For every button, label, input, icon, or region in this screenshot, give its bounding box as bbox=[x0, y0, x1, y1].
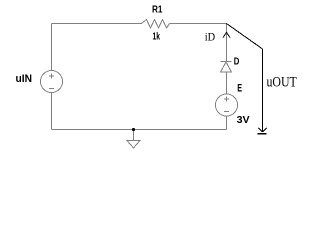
diode D triangle bbox=[221, 62, 232, 72]
junction dot at ground node bbox=[132, 128, 135, 131]
wire left vertical (corner down to uIN top) bbox=[51, 24, 53, 71]
uOUT arrow diagonal bbox=[227, 24, 263, 50]
wire top horizontal right (R1 to node) bbox=[170, 23, 227, 25]
wire top horizontal left (source to R1) bbox=[52, 23, 143, 25]
resistor R1 zigzag bbox=[142, 20, 170, 29]
diode D cathode bar bbox=[221, 61, 232, 63]
wire bottom rail bbox=[52, 129, 227, 131]
source E circle bbox=[216, 94, 238, 116]
source uIN circle bbox=[41, 71, 63, 93]
ground triangle bbox=[127, 141, 140, 149]
svg-text:uIN: uIN bbox=[16, 73, 33, 85]
svg-text:1k: 1k bbox=[153, 32, 161, 43]
uIN minus sign bbox=[49, 88, 54, 90]
wire uIN bottom to rail bbox=[51, 93, 53, 130]
svg-text:iD: iD bbox=[205, 30, 216, 44]
svg-text:uOUT: uOUT bbox=[267, 75, 297, 91]
uOUT arrow bottom bar bbox=[258, 133, 267, 135]
uOUT arrow vertical bbox=[262, 49, 264, 132]
uIN plus sign bbox=[49, 73, 54, 78]
ground stub bbox=[133, 130, 135, 141]
svg-text:3V: 3V bbox=[237, 114, 250, 126]
svg-text:R1: R1 bbox=[152, 5, 163, 16]
uOUT arrowhead wings bbox=[259, 128, 267, 132]
E minus sign bbox=[224, 111, 229, 113]
svg-text:D: D bbox=[234, 56, 240, 68]
E plus sign bbox=[224, 96, 229, 101]
wire diode to E source bbox=[226, 72, 228, 94]
wire E bottom to rail bbox=[226, 116, 228, 130]
wire node down to diode bbox=[226, 24, 228, 62]
iD current arrowhead bbox=[223, 33, 230, 38]
svg-text:E: E bbox=[237, 83, 242, 95]
